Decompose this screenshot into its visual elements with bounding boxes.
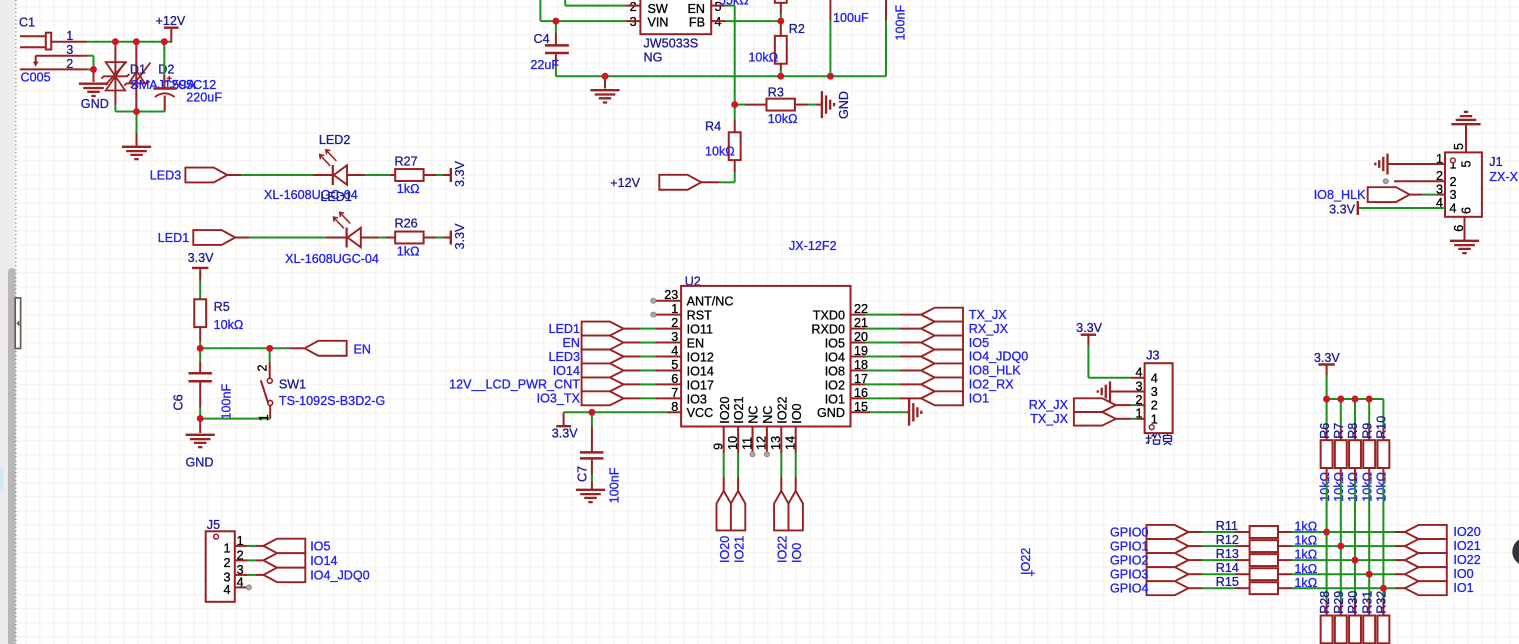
svg-text:5: 5 — [1459, 160, 1473, 167]
svg-text:GPIO2: GPIO2 — [1110, 553, 1149, 567]
svg-text:IO3: IO3 — [687, 392, 707, 406]
svg-text:IO22: IO22 — [775, 396, 789, 423]
svg-text:IO14: IO14 — [687, 364, 714, 378]
svg-text:+12V: +12V — [156, 14, 186, 28]
svg-text:GPIO1: GPIO1 — [1110, 539, 1149, 553]
svg-text:GND: GND — [186, 456, 214, 470]
svg-text:C1: C1 — [19, 16, 35, 30]
svg-text:R2: R2 — [789, 22, 805, 36]
svg-text:SW: SW — [648, 2, 668, 16]
svg-text:RST: RST — [687, 309, 712, 323]
svg-text:LED3: LED3 — [150, 169, 182, 183]
svg-text:R14: R14 — [1216, 561, 1239, 575]
svg-text:1: 1 — [224, 542, 231, 556]
svg-text:R4: R4 — [705, 120, 721, 134]
svg-text:IO4_JDQ0: IO4_JDQ0 — [310, 569, 370, 583]
svg-text:IO1: IO1 — [969, 392, 989, 406]
svg-text:100nF: 100nF — [894, 4, 908, 40]
svg-text:IO1: IO1 — [1453, 581, 1473, 595]
svg-text:3.3V: 3.3V — [552, 427, 579, 441]
svg-text:IO4: IO4 — [825, 350, 845, 364]
svg-text:220uF: 220uF — [186, 91, 222, 105]
svg-text:R11: R11 — [1216, 519, 1238, 533]
svg-text:RXD0: RXD0 — [811, 323, 845, 337]
svg-text:EN: EN — [354, 343, 372, 357]
svg-text:LED1: LED1 — [320, 190, 352, 204]
svg-text:R26: R26 — [395, 217, 418, 231]
svg-text:IO11: IO11 — [687, 323, 713, 337]
svg-text:LED1: LED1 — [158, 231, 190, 245]
svg-text:2: 2 — [1151, 399, 1158, 413]
svg-text:IO8_HLK: IO8_HLK — [1314, 188, 1366, 202]
svg-text:IO22: IO22 — [1453, 553, 1480, 567]
svg-text:R32: R32 — [1375, 591, 1389, 614]
svg-text:ZX-XINJIE: ZX-XINJIE — [1489, 170, 1519, 184]
svg-text:R9: R9 — [1360, 423, 1374, 439]
svg-text:EN: EN — [563, 336, 581, 350]
svg-text:IO20: IO20 — [718, 536, 732, 563]
svg-text:C7: C7 — [576, 466, 590, 482]
svg-text:R8: R8 — [1346, 423, 1360, 439]
svg-text:IO2_RX: IO2_RX — [969, 378, 1014, 392]
svg-text:3.3V: 3.3V — [1329, 203, 1356, 217]
svg-text:12V__LCD_PWR_CNT: 12V__LCD_PWR_CNT — [449, 378, 580, 392]
svg-text:2: 2 — [1450, 175, 1457, 189]
svg-text:4: 4 — [1135, 366, 1142, 380]
svg-text:3.3V: 3.3V — [453, 160, 467, 187]
svg-text:C4: C4 — [534, 32, 550, 46]
svg-text:NC: NC — [761, 406, 775, 424]
svg-text:+12V: +12V — [610, 176, 640, 190]
svg-text:3: 3 — [1450, 188, 1457, 202]
svg-text:GND: GND — [81, 97, 109, 111]
svg-text:TS-1092S-B3D2-G: TS-1092S-B3D2-G — [279, 394, 385, 408]
svg-text:IO12: IO12 — [687, 350, 714, 364]
svg-text:GPIO3: GPIO3 — [1110, 568, 1149, 582]
svg-text:ANT/NC: ANT/NC — [687, 295, 734, 309]
svg-text:J1: J1 — [1489, 155, 1502, 169]
svg-text:R12: R12 — [1216, 533, 1239, 547]
svg-text:1: 1 — [257, 414, 271, 421]
svg-text:IO8: IO8 — [825, 364, 845, 378]
svg-text:IO20: IO20 — [1453, 525, 1480, 539]
svg-text:2: 2 — [224, 556, 231, 570]
svg-text:R10: R10 — [1375, 416, 1389, 439]
svg-text:3.3V: 3.3V — [1076, 321, 1103, 335]
svg-text:TX_JX: TX_JX — [1030, 412, 1068, 426]
svg-text:100nF: 100nF — [608, 467, 622, 503]
svg-text:22uF: 22uF — [530, 58, 559, 72]
svg-text:GPIO0: GPIO0 — [1110, 525, 1149, 539]
svg-text:3: 3 — [1151, 385, 1158, 399]
svg-text:IO14: IO14 — [310, 554, 337, 568]
svg-text:R6: R6 — [1318, 423, 1332, 439]
svg-text:10kΩ: 10kΩ — [768, 112, 798, 126]
svg-text:10kΩ: 10kΩ — [705, 144, 735, 158]
svg-text:3.3V: 3.3V — [453, 223, 467, 250]
svg-text:IO5: IO5 — [825, 336, 845, 350]
svg-text:RX_JX: RX_JX — [1029, 398, 1069, 412]
svg-text:LED1: LED1 — [548, 322, 580, 336]
svg-text:10kΩ: 10kΩ — [748, 50, 778, 64]
svg-text:GND: GND — [837, 91, 851, 119]
svg-text:LED2: LED2 — [319, 133, 351, 147]
svg-text:C005: C005 — [21, 70, 51, 84]
svg-text:IO0: IO0 — [790, 403, 804, 423]
svg-text:LED3: LED3 — [548, 350, 580, 364]
svg-text:IO3_TX: IO3_TX — [537, 392, 581, 406]
svg-text:IO1: IO1 — [825, 392, 845, 406]
svg-text:EN: EN — [687, 336, 705, 350]
svg-text:IO14: IO14 — [553, 364, 580, 378]
svg-text:J5: J5 — [207, 518, 220, 532]
svg-text:R15: R15 — [1216, 575, 1239, 589]
svg-text:XL-1608UGC-04: XL-1608UGC-04 — [285, 252, 379, 266]
svg-text:100nF: 100nF — [220, 383, 234, 419]
svg-text:3.3V: 3.3V — [1314, 351, 1341, 365]
svg-text:100uF: 100uF — [833, 11, 869, 25]
svg-text:IO5: IO5 — [310, 540, 330, 554]
svg-text:SW1: SW1 — [279, 378, 306, 392]
svg-text:IO20: IO20 — [718, 396, 732, 423]
svg-text:R3: R3 — [768, 86, 784, 100]
svg-text:NG: NG — [644, 51, 663, 65]
svg-text:C6: C6 — [172, 394, 186, 410]
svg-text:IO0: IO0 — [790, 543, 804, 563]
svg-text:3: 3 — [630, 15, 637, 29]
svg-text:4: 4 — [1151, 371, 1158, 385]
svg-text:10kΩ: 10kΩ — [1332, 472, 1346, 502]
svg-text:10kΩ: 10kΩ — [1375, 472, 1389, 502]
svg-text:1kΩ: 1kΩ — [397, 182, 420, 196]
svg-text:JW5033S: JW5033S — [644, 37, 699, 51]
svg-text:IO2: IO2 — [825, 378, 845, 392]
svg-text:3.3V: 3.3V — [188, 251, 215, 265]
svg-text:2: 2 — [256, 364, 270, 371]
svg-text:IO21: IO21 — [732, 396, 746, 423]
svg-text:FB: FB — [689, 16, 705, 30]
svg-text:IO0: IO0 — [1453, 567, 1473, 581]
svg-text:EN: EN — [688, 2, 706, 16]
svg-text:NC: NC — [747, 406, 761, 424]
svg-text:R28: R28 — [1318, 591, 1332, 614]
svg-text:10kΩ: 10kΩ — [1318, 472, 1332, 502]
svg-text:4: 4 — [715, 15, 722, 29]
svg-text:IO4_JDQ0: IO4_JDQ0 — [969, 350, 1029, 364]
svg-text:R13: R13 — [1216, 547, 1239, 561]
svg-text:10kΩ: 10kΩ — [1360, 472, 1374, 502]
svg-text:1kΩ: 1kΩ — [397, 244, 420, 258]
svg-text:55kΩ: 55kΩ — [719, 0, 749, 8]
svg-text:VIN: VIN — [648, 16, 669, 30]
svg-text:R30: R30 — [1346, 591, 1360, 614]
svg-text:RX_JX: RX_JX — [969, 322, 1009, 336]
svg-text:IO17: IO17 — [687, 378, 714, 392]
svg-text:VCC: VCC — [687, 406, 714, 420]
svg-text:2: 2 — [630, 0, 637, 14]
svg-text:R29: R29 — [1332, 591, 1346, 614]
svg-text:J3: J3 — [1146, 349, 1159, 363]
svg-text:5: 5 — [1452, 143, 1466, 150]
svg-text:D2: D2 — [158, 62, 174, 76]
svg-text:6: 6 — [1459, 207, 1473, 214]
svg-text:10kΩ: 10kΩ — [1346, 472, 1360, 502]
svg-text:IO22: IO22 — [776, 536, 790, 563]
svg-text:GPIO4: GPIO4 — [1110, 582, 1149, 596]
svg-text:GND: GND — [817, 406, 845, 420]
svg-text:IO21: IO21 — [732, 536, 746, 563]
svg-text:R5: R5 — [214, 300, 230, 314]
svg-text:IO21: IO21 — [1453, 539, 1480, 553]
svg-text:TX_JX: TX_JX — [969, 308, 1007, 322]
svg-text:R7: R7 — [1332, 423, 1346, 439]
svg-text:4: 4 — [1450, 202, 1457, 216]
svg-text:TXD0: TXD0 — [813, 309, 845, 323]
svg-text:IO22: IO22 — [1019, 548, 1033, 575]
svg-text:1: 1 — [66, 29, 73, 43]
svg-text:10kΩ: 10kΩ — [214, 318, 244, 332]
svg-text:R31: R31 — [1360, 591, 1374, 614]
svg-text:IO8_HLK: IO8_HLK — [969, 364, 1021, 378]
svg-text:R27: R27 — [395, 154, 418, 168]
svg-text:IO5: IO5 — [969, 336, 989, 350]
svg-text:4: 4 — [224, 583, 231, 597]
svg-text:JX-12F2: JX-12F2 — [789, 239, 837, 253]
svg-text:D1: D1 — [130, 62, 146, 76]
